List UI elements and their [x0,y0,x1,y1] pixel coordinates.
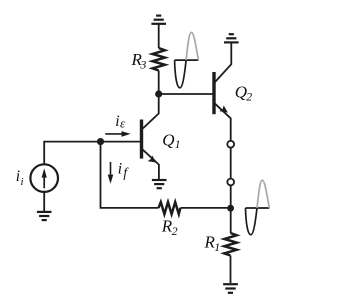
svg-text:Q2: Q2 [235,83,252,104]
svg-text:Q1: Q1 [162,130,180,151]
svg-text:if: if [118,160,130,180]
svg-text:R2: R2 [161,217,178,239]
svg-text:R1: R1 [204,232,221,254]
svg-text:ii: ii [16,168,24,188]
svg-text:iε: iε [115,113,126,131]
svg-text:R3: R3 [131,50,147,72]
